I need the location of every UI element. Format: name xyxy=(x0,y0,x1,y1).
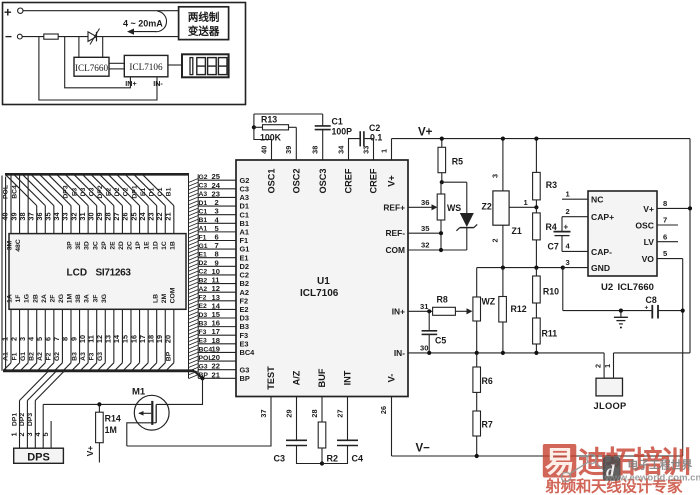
svg-text:1A: 1A xyxy=(7,294,14,303)
LCD bottom pin 15 xyxy=(130,309,132,363)
capacitor C2 0.1 xyxy=(359,131,361,146)
svg-text:R12: R12 xyxy=(511,304,527,314)
svg-text:100K: 100K xyxy=(260,133,282,143)
LCD bottom pin 7 xyxy=(61,309,63,363)
U1 left pin G2 25 xyxy=(198,179,236,181)
svg-text:LB: LB xyxy=(152,294,159,303)
svg-text:100P: 100P xyxy=(332,127,353,137)
svg-text:R5: R5 xyxy=(452,157,463,167)
svg-text:2C: 2C xyxy=(127,241,134,250)
svg-text:2: 2 xyxy=(490,238,499,242)
U1 pin CREF 34 xyxy=(349,139,360,160)
svg-text:1: 1 xyxy=(379,149,388,153)
charge pump U2 ICL7660 body xyxy=(588,191,657,276)
LCD top pin 31 xyxy=(87,206,89,234)
resistor R10 xyxy=(533,276,541,303)
svg-text:C3: C3 xyxy=(274,454,286,464)
svg-text:B3: B3 xyxy=(199,320,208,327)
LCD bottom pin 2 xyxy=(19,309,21,363)
svg-text:BC4: BC4 xyxy=(199,346,213,353)
svg-text:POL: POL xyxy=(3,185,10,199)
wire VO drop xyxy=(682,259,684,456)
LCD bottom pin 17 xyxy=(147,309,149,363)
svg-text:WZ: WZ xyxy=(482,297,496,307)
U1 left pin BP 21 xyxy=(198,377,236,379)
LCD bottom pin 5 xyxy=(44,309,46,363)
svg-text:B3: B3 xyxy=(71,352,78,361)
svg-text:R10: R10 xyxy=(543,287,559,297)
svg-text:F2: F2 xyxy=(46,352,53,360)
svg-text:VO: VO xyxy=(642,254,655,264)
wire taps to ICL7660 xyxy=(78,37,80,58)
LCD bottom pin 18 xyxy=(156,309,158,363)
M1 gate wire from DPS pin4 xyxy=(43,403,151,405)
svg-text:33: 33 xyxy=(361,146,370,154)
svg-text:B1: B1 xyxy=(199,217,208,224)
svg-text:28: 28 xyxy=(310,409,319,417)
svg-text:COM: COM xyxy=(169,287,176,303)
inset protection diode xyxy=(88,32,97,42)
svg-text:8: 8 xyxy=(663,199,667,208)
analog common node line xyxy=(477,267,563,269)
svg-text:C2: C2 xyxy=(199,269,208,276)
node R7 on V- rail xyxy=(475,454,479,458)
svg-text:C3: C3 xyxy=(199,183,208,190)
resistor R14 1M xyxy=(97,402,101,406)
U1 pin BUF 28 and resistor R2 xyxy=(321,397,323,423)
LCD bottom pin 10 xyxy=(87,309,89,363)
M1 source wire to TEST line xyxy=(127,423,156,446)
svg-text:1: 1 xyxy=(603,364,612,368)
U1 pin REF+ 36 with wiper arrow xyxy=(408,206,432,208)
LCD top pin 29 xyxy=(104,206,106,234)
U1 left pin POL 20 xyxy=(198,360,236,362)
svg-text:OSC3: OSC3 xyxy=(318,168,328,193)
LCD bottom bus corner to BP node xyxy=(194,371,203,379)
LCD top pin 37 xyxy=(36,206,38,234)
LCD top pin 25 xyxy=(139,206,141,234)
svg-text:BP: BP xyxy=(240,374,250,383)
voltage reference Z1 xyxy=(502,139,504,191)
inset series resistor xyxy=(44,34,58,39)
wire resistor to diode xyxy=(58,36,88,38)
svg-text:NC: NC xyxy=(591,195,603,205)
node REF- junction xyxy=(439,231,443,235)
svg-text:D1: D1 xyxy=(199,200,208,207)
svg-text:C1: C1 xyxy=(199,208,208,215)
rail V+ right drop xyxy=(689,139,691,353)
svg-text:ICL7106: ICL7106 xyxy=(129,62,163,72)
U1 pin CREF 33 xyxy=(365,139,374,160)
U1 left pin D3 15 xyxy=(198,317,236,319)
resistor R7 xyxy=(473,411,481,436)
svg-text:LCD: LCD xyxy=(67,268,88,279)
svg-text:JLOOP: JLOOP xyxy=(594,401,627,411)
LCD top pin 40 xyxy=(10,174,12,233)
LCD bottom pin 8 xyxy=(70,309,72,363)
U1 pin OSC3 38 xyxy=(322,130,324,160)
U2 pin CAP+ 2 xyxy=(562,216,588,218)
svg-text:G2: G2 xyxy=(54,352,61,361)
svg-text:V+: V+ xyxy=(643,204,654,214)
LCD top pin 28 xyxy=(113,206,115,234)
resistor R3 xyxy=(535,139,537,173)
svg-text:CAP-: CAP- xyxy=(591,247,612,257)
svg-text:C7: C7 xyxy=(548,242,559,252)
svg-text:R13: R13 xyxy=(261,114,277,124)
svg-text:3E: 3E xyxy=(75,241,82,250)
svg-text:R3: R3 xyxy=(546,180,557,190)
svg-text:38: 38 xyxy=(311,146,320,154)
U1 pin COM 32 xyxy=(408,249,467,251)
svg-text:V-: V- xyxy=(386,374,396,383)
resistor R13 100K xyxy=(252,125,256,129)
U1 pin TEST 37 xyxy=(127,397,271,447)
U1 left pin E2 14 xyxy=(198,308,236,310)
resistor R6 xyxy=(473,367,481,392)
svg-text:1F: 1F xyxy=(15,295,22,303)
U1 pin V+ 1 xyxy=(391,139,393,160)
wire to zener branch xyxy=(442,181,467,183)
LCD top pin 32 xyxy=(79,206,81,234)
DPS pin 3 xyxy=(34,401,36,449)
LCD bottom pin 1 xyxy=(10,309,12,363)
LCD top pin 24 xyxy=(147,206,149,234)
svg-text:POL: POL xyxy=(199,355,213,362)
svg-text:31: 31 xyxy=(420,302,429,311)
U1 left pin A3 23 xyxy=(198,196,236,198)
svg-text:R4: R4 xyxy=(546,222,557,232)
svg-text:CREF: CREF xyxy=(369,168,379,193)
seven-segment display 1888 xyxy=(182,54,229,77)
svg-text:R14: R14 xyxy=(105,414,121,424)
svg-text:1G: 1G xyxy=(24,294,31,303)
svg-text:BP: BP xyxy=(166,351,173,361)
svg-text:C8: C8 xyxy=(646,295,657,305)
LCD bottom pin 12 xyxy=(104,309,106,363)
svg-text:COM: COM xyxy=(385,245,405,255)
svg-text:3F: 3F xyxy=(92,295,99,303)
U1 pin OSC1 40 xyxy=(254,114,272,160)
svg-text:F1: F1 xyxy=(11,352,18,360)
capacitor C8 xyxy=(651,305,653,319)
U1 pin REF- 35 xyxy=(408,232,441,234)
svg-text:+: + xyxy=(4,5,12,20)
svg-text:3: 3 xyxy=(490,174,499,178)
svg-text:DP1: DP1 xyxy=(11,413,18,426)
svg-text:V−: V− xyxy=(416,443,431,455)
U1 left pin F1 6 xyxy=(198,239,236,241)
svg-text:5: 5 xyxy=(41,432,50,436)
node R3/R4/Z1 pin1 xyxy=(534,205,538,209)
wire bundle band between LCD and U1 xyxy=(188,174,190,378)
U1 left pin F3 17 xyxy=(198,334,236,336)
svg-text:G1: G1 xyxy=(199,243,208,250)
DPS pin 5 xyxy=(50,421,52,448)
svg-text:5: 5 xyxy=(663,249,668,258)
U2 pin GND 3 xyxy=(563,267,588,269)
M1 gate bar xyxy=(151,401,153,425)
svg-text:2G: 2G xyxy=(58,294,65,303)
svg-text:2F: 2F xyxy=(49,295,56,303)
U2 pin CAP- 4 xyxy=(562,250,588,252)
watermark logo circles xyxy=(561,454,614,481)
op-amp U1 ICL7106 body xyxy=(236,160,408,397)
svg-text:3D: 3D xyxy=(84,241,91,250)
M1 drain wire to BP node xyxy=(156,378,202,404)
svg-text:两线制: 两线制 xyxy=(188,11,220,24)
svg-text:1C: 1C xyxy=(161,241,168,250)
svg-text:F3: F3 xyxy=(88,352,95,360)
svg-text:1: 1 xyxy=(524,198,529,207)
svg-text:29: 29 xyxy=(285,409,294,417)
svg-text:DP3: DP3 xyxy=(27,413,34,426)
svg-text:20: 20 xyxy=(164,335,173,343)
resistor R5 xyxy=(441,139,443,148)
LCD top bus line xyxy=(5,173,189,176)
svg-text:2B: 2B xyxy=(32,294,39,303)
LCD bottom pin 14 xyxy=(121,309,123,363)
wire ICL7106 to display xyxy=(168,64,182,66)
svg-text:1: 1 xyxy=(566,190,571,199)
JLOOP pin 1 xyxy=(613,353,615,378)
svg-text:A1: A1 xyxy=(3,352,10,361)
svg-text:2: 2 xyxy=(566,207,570,216)
svg-text:R6: R6 xyxy=(482,376,493,386)
inset ICL7660 box xyxy=(74,57,109,76)
U1 left pin A1 5 xyxy=(198,231,236,233)
LCD top pin 27 xyxy=(121,206,123,234)
svg-text:IN+: IN+ xyxy=(392,306,405,316)
svg-text:21: 21 xyxy=(164,212,173,220)
svg-text:ICL7106: ICL7106 xyxy=(300,288,339,299)
svg-text:34: 34 xyxy=(336,145,345,154)
ground symbol xyxy=(619,309,623,313)
svg-text:3B: 3B xyxy=(75,294,82,303)
potentiometer WZ xyxy=(473,297,481,321)
wire drop inner loop xyxy=(65,37,131,88)
svg-text:U1: U1 xyxy=(317,276,330,287)
LCD bottom pin 16 xyxy=(139,309,141,363)
svg-text:V+: V+ xyxy=(387,175,397,187)
svg-text:35: 35 xyxy=(421,224,430,233)
svg-text:BC4: BC4 xyxy=(11,185,18,199)
svg-text:TEST: TEST xyxy=(266,366,276,390)
svg-text:4 ~ 20mA: 4 ~ 20mA xyxy=(123,19,163,29)
svg-text:4: 4 xyxy=(566,242,571,251)
svg-text:BC4: BC4 xyxy=(240,348,256,357)
svg-text:V+: V+ xyxy=(418,127,433,139)
svg-text:电子工程世界: 电子工程世界 xyxy=(628,458,693,472)
svg-text:3M: 3M xyxy=(7,240,14,250)
U1 left pin C2 10 xyxy=(198,274,236,276)
svg-text:+: + xyxy=(564,223,569,232)
connector JLOOP body xyxy=(596,378,623,396)
U1 left pin B1 4 xyxy=(198,222,236,224)
resistor R12 xyxy=(499,297,507,323)
svg-text:G2: G2 xyxy=(199,174,208,181)
watermark dark logo square xyxy=(603,457,621,481)
svg-text:A3: A3 xyxy=(199,191,208,198)
inset ICL7106 box xyxy=(124,55,168,76)
svg-text:R7: R7 xyxy=(482,420,493,430)
svg-text:BUF: BUF xyxy=(317,368,327,387)
svg-text:1E: 1E xyxy=(144,241,151,250)
LCD bottom pin 19 xyxy=(164,309,166,363)
svg-text:26: 26 xyxy=(379,406,388,414)
LCD top pin 26 xyxy=(130,206,132,234)
svg-text:B2: B2 xyxy=(28,352,35,361)
svg-text:B1: B1 xyxy=(166,187,173,196)
svg-text:IN-: IN- xyxy=(394,348,405,358)
watermark red box char xyxy=(543,444,577,478)
svg-text:2D: 2D xyxy=(118,241,125,250)
svg-text:36: 36 xyxy=(421,198,429,207)
svg-text:E1: E1 xyxy=(199,252,208,259)
U1 pin INT 27 and capacitor C4 xyxy=(347,397,349,441)
potentiometer WS xyxy=(437,194,445,220)
LCD top pin 30 xyxy=(96,206,98,234)
U1 left pin E3 18 xyxy=(198,343,236,345)
svg-text:IN+: IN+ xyxy=(125,79,136,88)
wire oscillator top xyxy=(254,113,323,115)
node R5 bottom xyxy=(440,180,444,184)
svg-text:3C: 3C xyxy=(92,241,99,250)
LCD top pin 39 xyxy=(19,174,21,233)
svg-text:37: 37 xyxy=(259,409,268,417)
svg-text:0.1: 0.1 xyxy=(370,132,382,142)
capacitor C7 xyxy=(561,217,563,232)
U2 pin LV 6 xyxy=(657,241,678,243)
LCD top pin 21 xyxy=(173,206,175,234)
svg-text:A2: A2 xyxy=(199,286,208,293)
svg-text:F1: F1 xyxy=(199,234,207,241)
LCD top pin 33 xyxy=(70,206,72,234)
svg-text:G3: G3 xyxy=(97,352,104,361)
svg-text:A3: A3 xyxy=(80,352,87,361)
U1 pin IN- 30 xyxy=(408,352,604,354)
LCD module body SI71263 xyxy=(9,234,186,310)
svg-text:A/Z: A/Z xyxy=(291,370,301,385)
rail V+ xyxy=(392,138,691,140)
LCD bottom pin 13 xyxy=(113,309,115,363)
U1 left pin G1 7 xyxy=(198,248,236,250)
svg-text:B2: B2 xyxy=(199,277,208,284)
U1 pin IN+ 31 xyxy=(408,310,433,312)
svg-text:C1: C1 xyxy=(332,116,343,126)
svg-text:30: 30 xyxy=(420,344,428,353)
svg-text:U2: U2 xyxy=(601,282,613,293)
LCD bottom pin 6 xyxy=(53,309,55,363)
LCD top pin 38 xyxy=(27,174,29,233)
svg-text:REF-: REF- xyxy=(385,228,405,238)
svg-text:OSC: OSC xyxy=(635,220,654,230)
svg-text:F3: F3 xyxy=(199,329,207,336)
svg-text:+: + xyxy=(645,305,649,312)
LCD top pin 22 xyxy=(164,206,166,234)
connector DPS body xyxy=(14,448,64,463)
wire minus terminal to resistor xyxy=(22,36,44,38)
svg-text:3A: 3A xyxy=(84,294,91,303)
svg-text:E3: E3 xyxy=(199,338,208,345)
svg-text:DPS: DPS xyxy=(27,451,50,463)
zener diode Z2 xyxy=(466,182,468,213)
LCD bottom pin 11 xyxy=(96,309,98,363)
svg-text:ICL7660: ICL7660 xyxy=(618,282,654,293)
svg-text:39: 39 xyxy=(284,146,293,154)
wire R8 to WZ arrow xyxy=(455,310,466,312)
U1 left pin C1 3 xyxy=(198,214,236,216)
LCD top pin 35 xyxy=(53,206,55,234)
svg-text:GND: GND xyxy=(591,263,610,273)
M1 source arrow xyxy=(139,412,151,414)
M1 channel bar xyxy=(155,404,157,422)
svg-text:2M: 2M xyxy=(161,293,168,303)
LCD top pin 34 xyxy=(61,206,63,234)
loop current arrow xyxy=(134,11,167,31)
U1 left pin BC4 19 xyxy=(198,351,236,353)
resistor R4 xyxy=(533,213,541,240)
U1 left pin D2 9 xyxy=(198,265,236,267)
DPS pin 1 xyxy=(19,401,21,449)
left vertical bus wires xyxy=(1,176,3,371)
svg-text:Z1: Z1 xyxy=(512,226,522,236)
svg-text:www.eeworld.com.cn: www.eeworld.com.cn xyxy=(604,473,700,484)
U2 pin V+ 8 xyxy=(657,207,690,209)
U2 pin VO 5 xyxy=(657,258,683,260)
node COM junction xyxy=(439,248,443,252)
wire drop outer loop xyxy=(39,37,157,100)
svg-text:变送器: 变送器 xyxy=(188,25,220,38)
rail V- xyxy=(392,455,684,457)
svg-text:21: 21 xyxy=(212,370,221,379)
LCD bottom pin 20 xyxy=(173,309,175,363)
svg-text:WS: WS xyxy=(447,203,461,213)
svg-text:ICL7660: ICL7660 xyxy=(75,63,109,73)
svg-text:1D: 1D xyxy=(152,241,159,250)
svg-text:7: 7 xyxy=(663,216,667,225)
U1 left pin D1 2 xyxy=(198,205,236,207)
LCD top pin 36 xyxy=(44,206,46,234)
svg-text:C4: C4 xyxy=(352,454,364,464)
svg-text:3: 3 xyxy=(566,258,570,267)
svg-text:CREF: CREF xyxy=(344,168,354,193)
svg-text:LV: LV xyxy=(644,237,655,247)
inset block-diagram frame xyxy=(3,3,246,105)
svg-text:1B: 1B xyxy=(169,241,176,250)
svg-text:−: − xyxy=(5,30,12,44)
svg-text:V+: V+ xyxy=(85,446,95,457)
svg-text:1M: 1M xyxy=(105,425,117,435)
transistor M1 MOSFET xyxy=(134,395,169,430)
svg-text:OSC1: OSC1 xyxy=(267,168,277,193)
svg-text:REF+: REF+ xyxy=(383,202,405,212)
svg-text:1M: 1M xyxy=(67,293,74,303)
svg-text:3P: 3P xyxy=(67,241,74,250)
LCD bottom pin 4 xyxy=(36,309,38,363)
wires ICL7660 to ICL7106 xyxy=(109,62,124,64)
svg-text:D3: D3 xyxy=(199,312,208,319)
U1 pin A/Z 29 and capacitor C3 xyxy=(296,397,298,441)
svg-text:INT: INT xyxy=(342,370,352,385)
svg-text:D2: D2 xyxy=(199,260,208,267)
svg-text:27: 27 xyxy=(336,409,345,417)
svg-text:R11: R11 xyxy=(542,329,558,339)
LCD bottom bus line xyxy=(3,369,194,372)
svg-text:6: 6 xyxy=(663,232,667,241)
U1 left pin B3 16 xyxy=(198,326,236,328)
svg-text:DP2: DP2 xyxy=(19,413,26,426)
